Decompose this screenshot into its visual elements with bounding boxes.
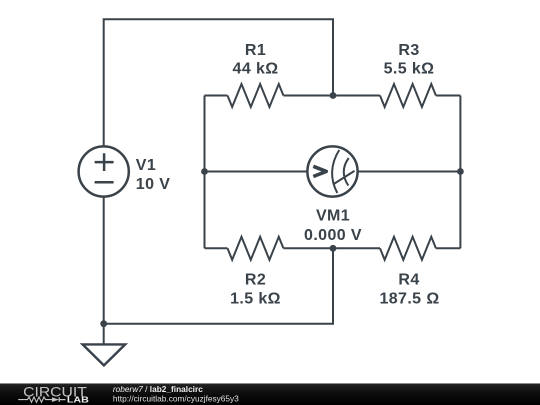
wire: bottom return from bridge to ground node [104,248,333,323]
wire: voltmeter left lead [205,171,308,173]
wire net: V1 + terminal up, across top, down to top rail junction [104,19,333,146]
CircuitLab logo diode symbol [52,397,59,402]
svg-text:44 kΩ: 44 kΩ [233,60,279,77]
wire: top rail between R1 and R3 [283,95,380,97]
wire: bottom rail between R2 and R4 [283,247,380,249]
resistor R1 [228,84,284,107]
node: bottom rail junction [330,245,337,252]
resistor R4 [380,237,436,260]
svg-text:1.5 kΩ: 1.5 kΩ [230,291,281,308]
wire: V1 - terminal down to ground rail [103,197,105,324]
svg-text:http://circuitlab.com/cyuzjfes: http://circuitlab.com/cyuzjfesy65y3 [113,394,239,404]
svg-text:0.000 V: 0.000 V [304,227,362,244]
svg-text:VM1: VM1 [316,208,350,225]
svg-text:LAB: LAB [67,396,89,404]
wire: bottom rail R4 to right vertical [436,247,460,249]
wire: ground stub [103,324,105,345]
ground [83,344,126,365]
node: right bridge node [457,168,464,175]
node: top rail junction [330,92,337,99]
wire: right vertical branch [459,96,461,249]
footer bar [0,383,540,405]
svg-text:5.5 kΩ: 5.5 kΩ [384,60,435,77]
svg-text:R2: R2 [245,271,266,288]
CircuitLab logo resistor squiggle [18,397,52,402]
wire: top rail left lead of R1 [205,95,228,97]
voltage source V1 [79,146,129,196]
svg-text:V1: V1 [136,157,156,174]
svg-text:R1: R1 [245,42,266,59]
wire: left vertical branch [204,96,206,249]
wire: top rail R3 to right vertical [436,95,460,97]
node: left bridge node [201,168,208,175]
node: ground junction [100,320,107,327]
svg-text:10 V: 10 V [136,176,171,193]
svg-text:R3: R3 [398,42,419,59]
resistor R3 [380,84,436,107]
resistor R2 [228,237,284,260]
wire: bottom rail left lead of R2 [205,247,228,249]
svg-text:R4: R4 [398,271,419,288]
svg-text:187.5 Ω: 187.5 Ω [379,291,439,308]
voltmeter VM1 [307,146,357,196]
wire: voltmeter right lead [358,171,460,173]
